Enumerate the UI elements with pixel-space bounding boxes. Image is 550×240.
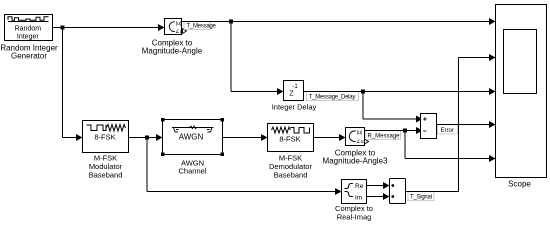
- wire junction down to M-FSK Modulator input: [63, 28, 83, 142]
- wire Error from Sum to Scope input 4: [437, 121, 496, 128]
- junction node on Random Integer output: [61, 26, 65, 30]
- wire junction down to Complex to Real-Imag input: [147, 138, 342, 196]
- svg-text:Real-Imag: Real-Imag: [337, 213, 372, 222]
- block Complex to Magnitude-Angle3 U7: [346, 128, 365, 146]
- junction node on T_Message_Delay wire: [361, 90, 365, 94]
- unconnected port angle-u of U2: [183, 29, 187, 34]
- svg-text:-1: -1: [292, 84, 298, 90]
- label Complex to Magnitude-Angle: [142, 39, 203, 56]
- wire R_Message from U7 to Sum minus input: [365, 127, 423, 134]
- svg-text:Integer: Integer: [17, 34, 39, 41]
- wire Re output to Mux input 1: [367, 182, 390, 189]
- svg-text:∠u: ∠u: [175, 29, 182, 35]
- svg-text:Error: Error: [441, 128, 454, 134]
- signal label T_Message_Delay: [307, 92, 359, 101]
- selection handle AWGN bottom-right: [221, 153, 225, 157]
- signal label T_Signal: [408, 192, 434, 201]
- block AWGN Channel: [163, 120, 223, 155]
- selection handle AWGN top-right: [221, 118, 225, 122]
- junction node on Modulator output: [145, 136, 149, 140]
- block Complex to Magnitude-Angle U2: [165, 19, 183, 36]
- svg-text:|u|: |u|: [176, 21, 181, 27]
- svg-text:T_Message: T_Message: [187, 24, 217, 30]
- svg-text:Baseband: Baseband: [274, 171, 308, 180]
- wire junction down to Sum plus input: [363, 92, 423, 123]
- wire junction down to Scope input 5: [405, 131, 496, 163]
- block Mux concatenate: [390, 179, 406, 204]
- selection handle AWGN top-left: [161, 118, 165, 122]
- wire junction down to Integer Delay input: [231, 22, 284, 96]
- label Complex to Real-Imag: [335, 204, 373, 222]
- svg-text:8-FSK: 8-FSK: [94, 133, 115, 142]
- svg-text:|u|: |u|: [357, 130, 362, 136]
- wire T_Signal from Mux up to Scope input 2: [406, 54, 496, 192]
- svg-text:Random: Random: [15, 26, 42, 33]
- wire T_Message from U2 to Scope input 1: [182, 18, 496, 25]
- svg-text:T_Message_Delay: T_Message_Delay: [309, 94, 356, 100]
- svg-text:Im: Im: [355, 195, 362, 202]
- label Random Integer Generator: [0, 44, 58, 61]
- block M-FSK Modulator Baseband: [83, 121, 129, 153]
- svg-text:Z: Z: [289, 91, 294, 98]
- wire AWGN output to Demodulator input: [223, 134, 268, 141]
- block Scope: [496, 5, 547, 178]
- svg-text:Scope: Scope: [508, 180, 531, 189]
- junction node on T_Message wire: [229, 20, 233, 24]
- svg-text:Integer Delay: Integer Delay: [272, 103, 317, 112]
- label M-FSK Demodulator Baseband: [269, 154, 312, 180]
- svg-text:Magnitude-Angle3: Magnitude-Angle3: [323, 157, 388, 166]
- block Sum Error: [421, 114, 437, 139]
- block Integer Delay: [284, 81, 304, 101]
- svg-text:Baseband: Baseband: [89, 171, 123, 180]
- svg-text:Channel: Channel: [179, 167, 207, 176]
- block Random Integer Generator: [5, 15, 53, 41]
- signal label Error: [438, 125, 458, 134]
- svg-text:R_Message: R_Message: [368, 133, 401, 139]
- wire Random Integer to Complex to Magnitude-Angle: [53, 24, 165, 31]
- svg-text:T_Signal: T_Signal: [410, 194, 432, 200]
- signal label R_Message: [366, 131, 401, 140]
- svg-text:Magnitude-Angle: Magnitude-Angle: [142, 47, 203, 56]
- signal label T_Message: [184, 22, 217, 30]
- junction node on R_Message wire: [403, 129, 407, 133]
- selection handle AWGN bottom-left: [161, 153, 165, 157]
- label Complex to Magnitude-Angle3: [323, 149, 388, 166]
- wire Modulator output to AWGN input: [129, 134, 163, 141]
- svg-text:Generator: Generator: [11, 52, 47, 61]
- block Complex to Real-Imag: [342, 180, 367, 204]
- label M-FSK Modulator Baseband: [89, 154, 123, 180]
- label AWGN Channel: [179, 159, 207, 176]
- svg-text:8-FSK: 8-FSK: [279, 135, 300, 144]
- svg-text:∠u: ∠u: [356, 139, 363, 145]
- wire T_Message_Delay from Integer Delay to Scope input 3: [304, 88, 496, 95]
- wire Im output to Mux input 2: [367, 193, 390, 200]
- wire Demodulator output to Complex to Magnitude-Angle3 input: [314, 134, 346, 141]
- svg-text:AWGN: AWGN: [179, 133, 204, 142]
- svg-text:Re: Re: [355, 183, 364, 190]
- block M-FSK Demodulator Baseband: [268, 124, 314, 152]
- unconnected port angle-u of U7: [365, 139, 369, 144]
